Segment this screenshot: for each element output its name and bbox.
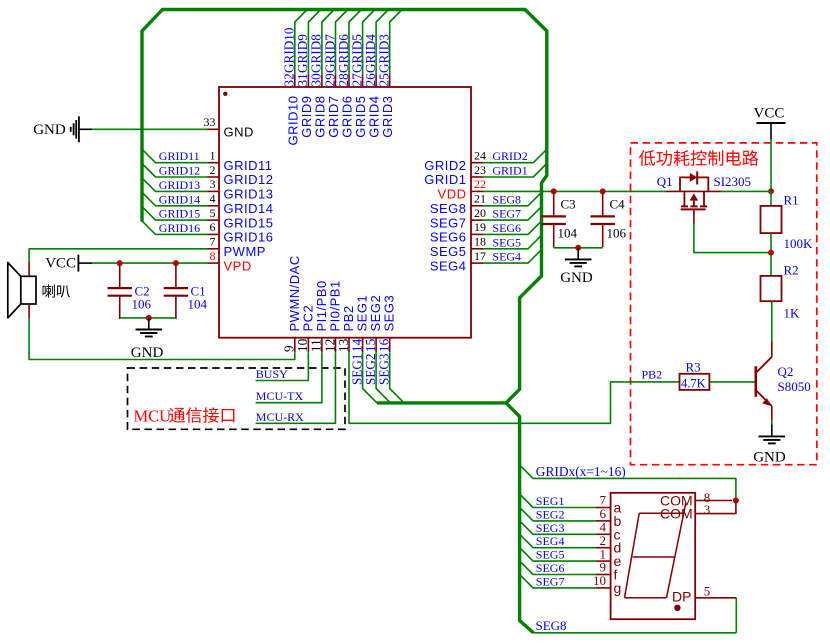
wire GRID11 entry bbox=[142, 149, 208, 163]
wire SEG6 entry bbox=[520, 561, 596, 575]
svg-text:8: 8 bbox=[210, 249, 216, 263]
svg-text:10: 10 bbox=[593, 573, 606, 588]
pin 29 stub bbox=[335, 74, 337, 87]
svg-text:1: 1 bbox=[210, 149, 216, 163]
svg-text:6: 6 bbox=[210, 220, 216, 234]
wire GRID/SEG bus (thick green) bbox=[142, 10, 547, 633]
svg-text:GRID13: GRID13 bbox=[224, 187, 274, 202]
pin 21 stub bbox=[471, 205, 483, 207]
svg-text:g: g bbox=[614, 580, 622, 596]
svg-text:MCU-TX: MCU-TX bbox=[256, 389, 304, 403]
wire SEG5 entry bbox=[483, 235, 542, 249]
svg-text:GRID16: GRID16 bbox=[224, 230, 274, 245]
wire GRID5 to bus bbox=[363, 10, 375, 75]
wire GRID3 to bus bbox=[390, 10, 402, 75]
label low-power control circuit bbox=[639, 150, 655, 166]
wire GRID14 entry bbox=[142, 192, 208, 206]
svg-text:SEG5: SEG5 bbox=[430, 244, 467, 259]
svg-text:19: 19 bbox=[474, 220, 486, 234]
op-amp U1 MCU body bbox=[219, 87, 471, 338]
svg-text:GND: GND bbox=[131, 345, 164, 361]
svg-text:GRID12: GRID12 bbox=[224, 172, 274, 187]
wire Q1 gate to R1R2 bbox=[694, 224, 771, 253]
wire SEG2 to bus bbox=[376, 352, 390, 403]
capacitor C3 bbox=[553, 191, 555, 216]
wire Q1 to VCC junction bbox=[721, 190, 771, 192]
pin 7 stub bbox=[208, 248, 220, 250]
wire R3 to Q2 base bbox=[709, 381, 755, 383]
wire GRID13 entry bbox=[142, 178, 208, 192]
svg-text:MCU-RX: MCU-RX bbox=[256, 410, 304, 424]
svg-text:17: 17 bbox=[474, 249, 486, 263]
wire GRID4 to bus bbox=[376, 10, 388, 75]
display pin 8 COM wire bbox=[695, 500, 732, 502]
svg-text:GRID2: GRID2 bbox=[492, 149, 527, 163]
svg-text:GRID1: GRID1 bbox=[492, 164, 527, 178]
junction dot C3 bbox=[551, 188, 557, 194]
wire BUSY bbox=[256, 352, 309, 380]
pin 28 stub bbox=[348, 74, 350, 87]
svg-text:GRID15: GRID15 bbox=[159, 207, 200, 221]
pin 8 stub bbox=[208, 262, 220, 264]
pin 1 stub bbox=[208, 162, 220, 164]
svg-text:104: 104 bbox=[188, 297, 208, 312]
svg-text:5: 5 bbox=[210, 206, 216, 220]
wire GRID6 to bus bbox=[349, 10, 361, 75]
wire R1 to R2 bbox=[770, 233, 772, 276]
wire SEG6 entry bbox=[483, 221, 542, 235]
svg-text:R1: R1 bbox=[784, 193, 799, 208]
svg-text:SI2305: SI2305 bbox=[714, 174, 752, 189]
svg-text:GRID2: GRID2 bbox=[424, 158, 466, 173]
wire GRIDx to COM bbox=[520, 465, 736, 501]
svg-text:SEG6: SEG6 bbox=[536, 561, 565, 575]
resistor R3 bbox=[680, 374, 710, 390]
capacitor C4 bbox=[602, 191, 604, 216]
junction dot R1 R2 bbox=[768, 250, 774, 256]
wire SEG1-3 bus (thick green) bbox=[377, 401, 508, 404]
node IC pin-1 marker dot bbox=[223, 92, 227, 96]
svg-text:106: 106 bbox=[607, 226, 627, 241]
pin 26 stub bbox=[375, 74, 377, 87]
svg-text:VPD: VPD bbox=[224, 258, 252, 273]
pin 19 stub bbox=[471, 233, 483, 235]
svg-text:23: 23 bbox=[474, 163, 486, 177]
display pin 3 COM wire bbox=[695, 501, 736, 514]
svg-text:106: 106 bbox=[132, 297, 152, 312]
pin 13 stub bbox=[348, 338, 350, 353]
svg-text:BUSY: BUSY bbox=[256, 367, 288, 381]
resistor R1 bbox=[761, 206, 782, 233]
svg-text:SEG7: SEG7 bbox=[430, 215, 467, 230]
wire SEG3 to bus bbox=[390, 352, 404, 403]
junction dot C3C4 gnd bbox=[575, 245, 581, 251]
display DS1 body bbox=[611, 493, 696, 619]
junction dot C2 bbox=[117, 260, 123, 266]
box low-power control (dashed red) bbox=[631, 143, 817, 465]
speaker pin bottom bbox=[28, 304, 30, 318]
pin 30 stub bbox=[321, 74, 323, 87]
wire SEG4 entry bbox=[520, 534, 596, 548]
svg-text:S8050: S8050 bbox=[778, 379, 811, 394]
display pin 7 stub bbox=[596, 507, 611, 509]
svg-text:VDD: VDD bbox=[438, 187, 467, 202]
svg-text:2: 2 bbox=[210, 163, 216, 177]
svg-text:7: 7 bbox=[210, 235, 216, 249]
svg-text:SEG4: SEG4 bbox=[536, 534, 565, 548]
wire SEG3 entry bbox=[520, 521, 596, 535]
pin 3 stub bbox=[208, 190, 220, 192]
pin 10 stub bbox=[307, 338, 309, 353]
wire speaker to pin 9 bbox=[29, 318, 295, 360]
svg-text:Q1: Q1 bbox=[657, 174, 673, 189]
transistor Q2 S8050 (NPN) bbox=[754, 366, 757, 397]
pin 9 stub bbox=[294, 338, 296, 353]
display pin 5 DP wire bbox=[695, 597, 736, 599]
wire SEG7 entry bbox=[520, 574, 596, 588]
wire VCC down bbox=[770, 140, 772, 192]
svg-text:GRID1: GRID1 bbox=[424, 172, 466, 187]
svg-text:SEG2: SEG2 bbox=[536, 507, 565, 521]
wire VDD from pin 22 bbox=[483, 190, 666, 192]
junction dot C1 bbox=[173, 260, 179, 266]
wire VCC to pin 8 VPD bbox=[92, 262, 208, 264]
wire C2-C1 bottom bbox=[120, 317, 176, 319]
display pin 9 stub bbox=[596, 574, 611, 576]
svg-text:SEG3: SEG3 bbox=[536, 521, 565, 535]
svg-text:SEG8: SEG8 bbox=[536, 618, 567, 633]
wire GRID16 entry bbox=[142, 221, 208, 235]
svg-text:4: 4 bbox=[210, 192, 216, 206]
svg-text:C3: C3 bbox=[561, 197, 576, 212]
wire speaker to pin 7 bbox=[29, 249, 207, 262]
display digit figure bbox=[639, 512, 683, 514]
pin 11 stub bbox=[321, 338, 323, 353]
svg-text:18: 18 bbox=[474, 235, 486, 249]
pin 12 stub bbox=[335, 338, 337, 353]
svg-text:GND: GND bbox=[224, 125, 254, 140]
power ground GND (pin 33) bbox=[70, 127, 72, 132]
svg-text:GND: GND bbox=[753, 450, 786, 466]
junction dot C1C2 gnd bbox=[146, 315, 152, 321]
svg-text:SEG4: SEG4 bbox=[430, 258, 467, 273]
wire SEG4 entry bbox=[483, 250, 542, 264]
junction dot VCC R1 Q1 bbox=[768, 188, 774, 194]
display pin 6 stub bbox=[596, 520, 611, 522]
svg-text:3: 3 bbox=[704, 502, 711, 517]
svg-text:5: 5 bbox=[704, 583, 711, 598]
pin 32 stub bbox=[294, 74, 296, 87]
pin 25 stub bbox=[389, 74, 391, 87]
svg-text:VCC: VCC bbox=[45, 255, 76, 271]
pin 14 stub bbox=[362, 338, 364, 353]
ground symbol (C1 C2) bbox=[148, 318, 150, 330]
pin 2 stub bbox=[208, 176, 220, 178]
resistor R2 bbox=[761, 276, 782, 301]
wire GRID15 entry bbox=[142, 207, 208, 221]
svg-text:3: 3 bbox=[210, 177, 216, 191]
svg-text:25: 25 bbox=[377, 73, 392, 87]
svg-text:SEG8: SEG8 bbox=[492, 192, 521, 206]
svg-text:21: 21 bbox=[474, 192, 486, 206]
svg-text:GRID3: GRID3 bbox=[380, 96, 395, 138]
svg-text:SEG3: SEG3 bbox=[382, 295, 397, 332]
pin 20 stub bbox=[471, 219, 483, 221]
svg-text:22: 22 bbox=[474, 177, 486, 191]
svg-text:SEG5: SEG5 bbox=[492, 235, 521, 249]
display pin 4 stub bbox=[596, 533, 611, 535]
svg-text:GND: GND bbox=[33, 122, 66, 138]
wire MCU-TX bbox=[256, 352, 322, 403]
wire SEG8 bbox=[533, 632, 736, 634]
speaker pin top bbox=[28, 262, 30, 276]
svg-text:GRIDx(x=1~16): GRIDx(x=1~16) bbox=[536, 464, 626, 479]
pin 33 stub bbox=[208, 128, 220, 130]
svg-text:SEG8: SEG8 bbox=[430, 201, 467, 216]
label speaker name bbox=[43, 284, 55, 297]
svg-text:GRID15: GRID15 bbox=[224, 215, 274, 230]
wire Q2 emitter to GND bbox=[771, 420, 773, 427]
svg-text:GRID13: GRID13 bbox=[159, 178, 200, 192]
svg-text:SEG5: SEG5 bbox=[536, 548, 565, 562]
wire SEG1 to bus bbox=[363, 352, 377, 403]
svg-text:33: 33 bbox=[204, 115, 216, 129]
svg-text:4.7K: 4.7K bbox=[681, 377, 706, 391]
svg-text:GND: GND bbox=[560, 270, 593, 286]
pin 4 stub bbox=[208, 205, 220, 207]
capacitor C1 bbox=[175, 263, 177, 288]
wire GRID2 entry bbox=[483, 149, 547, 163]
ground symbol (Q2) bbox=[771, 425, 773, 437]
wire SEG8 entry bbox=[483, 192, 542, 206]
wire C3-C4 bottom bbox=[554, 247, 603, 249]
wire GRID12 entry bbox=[142, 164, 208, 178]
svg-text:C4: C4 bbox=[610, 197, 626, 212]
svg-text:1K: 1K bbox=[784, 306, 801, 321]
svg-text:GRID16: GRID16 bbox=[159, 221, 200, 235]
svg-text:SEG7: SEG7 bbox=[492, 207, 521, 221]
svg-text:VCC: VCC bbox=[754, 106, 785, 122]
junction dot C4 bbox=[600, 188, 606, 194]
wire GRID7 to bus bbox=[336, 10, 348, 75]
box MCU comm interface (dashed) bbox=[128, 368, 346, 429]
svg-text:20: 20 bbox=[474, 206, 486, 220]
wire SEG5 entry bbox=[520, 548, 596, 562]
wire R2 to Q2 collector bbox=[771, 301, 773, 341]
svg-text:GRID3: GRID3 bbox=[377, 34, 392, 73]
wire MCU-RX bbox=[256, 352, 336, 423]
capacitor C2 bbox=[119, 263, 121, 288]
svg-text:GRID11: GRID11 bbox=[159, 149, 200, 163]
svg-text:R2: R2 bbox=[784, 263, 799, 278]
speaker LS1 (loudspeaker) bbox=[21, 276, 36, 304]
display pin 10 stub bbox=[596, 587, 611, 589]
svg-text:SEG6: SEG6 bbox=[430, 230, 467, 245]
svg-text:SEG6: SEG6 bbox=[492, 221, 521, 235]
svg-text:COM: COM bbox=[660, 506, 693, 522]
svg-text:GRID12: GRID12 bbox=[159, 164, 200, 178]
wire GRID8 to bus bbox=[322, 10, 334, 75]
display pin 2 stub bbox=[596, 547, 611, 549]
wire SEG1 entry bbox=[520, 494, 596, 508]
pin 24 stub bbox=[471, 162, 483, 164]
svg-text:GRID14: GRID14 bbox=[159, 192, 200, 206]
svg-text:100K: 100K bbox=[784, 236, 814, 251]
pin 31 stub bbox=[307, 74, 309, 87]
pin 17 stub bbox=[471, 262, 483, 264]
pin 16 stub bbox=[389, 338, 391, 353]
wire GRID1 entry bbox=[483, 164, 547, 178]
svg-text:MCU: MCU bbox=[134, 407, 172, 426]
svg-text:GRID11: GRID11 bbox=[224, 158, 273, 173]
display pin 1 stub bbox=[596, 560, 611, 562]
wire PB2 from pin 13 bbox=[349, 352, 680, 423]
pin 18 stub bbox=[471, 248, 483, 250]
svg-text:PB2: PB2 bbox=[642, 368, 663, 382]
pin 15 stub bbox=[375, 338, 377, 353]
svg-text:DP: DP bbox=[672, 588, 691, 604]
transistor Q1 SI2305 (P-MOSFET) bbox=[666, 190, 722, 192]
svg-text:PWMP: PWMP bbox=[224, 244, 266, 259]
wire GND to pin 33 bbox=[92, 128, 207, 130]
pin 23 stub bbox=[471, 176, 483, 178]
wire VCC to R1 bbox=[770, 191, 772, 206]
svg-text:SEG4: SEG4 bbox=[492, 250, 521, 264]
svg-text:SEG1: SEG1 bbox=[536, 494, 565, 508]
svg-text:24: 24 bbox=[474, 149, 486, 163]
pin 27 stub bbox=[362, 74, 364, 87]
svg-text:104: 104 bbox=[558, 226, 578, 241]
svg-text:R3: R3 bbox=[686, 360, 701, 375]
svg-text:Q2: Q2 bbox=[778, 364, 794, 379]
display DP dot bbox=[674, 605, 680, 611]
ground symbol (C3 C4) bbox=[577, 248, 579, 260]
wire GRID9 to bus bbox=[308, 10, 320, 75]
wire SEG7 entry bbox=[483, 207, 542, 221]
wire GRID10 to bus bbox=[295, 10, 307, 75]
wire SEG2 entry bbox=[520, 507, 596, 521]
svg-text:16: 16 bbox=[377, 338, 392, 352]
pin 22 stub bbox=[471, 190, 483, 192]
pin 5 stub bbox=[208, 219, 220, 221]
svg-text:GRID14: GRID14 bbox=[224, 201, 274, 216]
svg-text:SEG7: SEG7 bbox=[536, 574, 565, 588]
pin 6 stub bbox=[208, 233, 220, 235]
junction dot COM bbox=[733, 498, 739, 504]
